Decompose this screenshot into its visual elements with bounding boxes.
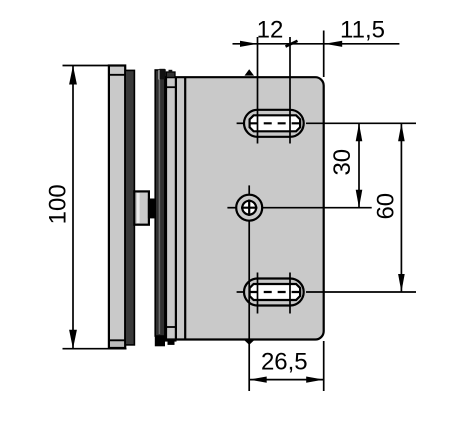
svg-text:30: 30	[329, 149, 356, 176]
bottom slot outer obround	[244, 279, 304, 306]
lamp body (side view)	[109, 66, 125, 348]
center hole inner circle	[242, 201, 256, 215]
dim 11,5 arrow	[325, 41, 343, 47]
strip top cap	[159, 69, 165, 80]
center hole top tick	[248, 185, 250, 194]
extension line plate right edge top	[323, 31, 325, 78]
svg-text:12: 12	[257, 17, 284, 44]
bracket plate (front view, with side bands)	[166, 77, 324, 339]
top slot left tick	[237, 122, 244, 124]
dim 100 down arrow	[69, 330, 77, 349]
dim 100 up arrow	[69, 66, 77, 85]
top slot right extension line	[306, 122, 416, 124]
band C bottom tab line	[166, 326, 176, 328]
svg-text:11,5: 11,5	[340, 17, 385, 44]
dim 100 line	[72, 66, 74, 349]
svg-text:60: 60	[373, 193, 400, 220]
strip gap slit	[158, 70, 160, 80]
dim 60 line	[400, 123, 402, 292]
band C right line	[175, 77, 177, 339]
top slot inner octagon	[250, 115, 301, 131]
center hole left tick	[227, 207, 236, 209]
band C top tab line	[166, 86, 176, 88]
lamp bottom cap shade	[110, 340, 124, 347]
bottom slot left vertical tick	[257, 273, 259, 314]
dim 30 line	[358, 123, 360, 207]
bottom slot right vertical tick	[289, 273, 291, 314]
dim 26,5 left arrow	[249, 377, 267, 383]
top dimension line	[233, 43, 400, 45]
dim 60 down arrow	[398, 274, 405, 292]
stud nut	[148, 199, 158, 219]
bottom slot left tick	[237, 291, 244, 293]
extension line slot left center	[257, 37, 259, 144]
dim 100 top extension line	[63, 65, 126, 67]
mounting stud block	[134, 191, 149, 224]
strip bottom cap	[155, 336, 165, 346]
center hole cross horizontal	[241, 207, 257, 209]
dim 100 bottom extension line	[63, 348, 127, 350]
strip seam	[158, 72, 160, 334]
top slot outer obround	[244, 110, 304, 137]
center hole bottom extension line	[248, 221, 250, 391]
dim slash tick	[286, 41, 298, 47]
stud highlight	[137, 193, 140, 223]
plate left edge line	[184, 77, 186, 339]
band C bottom foot	[168, 340, 175, 345]
bottom slot dashed centerline	[250, 291, 300, 293]
band C bottom foot bar	[165, 340, 177, 342]
centerline down arrow	[244, 340, 255, 345]
bracket dark strips (side view)	[155, 70, 165, 336]
dim 26,5 line	[249, 379, 324, 381]
dim 30 up arrow	[356, 123, 363, 141]
top slot dashed centerline	[250, 122, 300, 124]
svg-text:26,5: 26,5	[261, 349, 308, 376]
band C top tab	[169, 70, 173, 73]
extension line slot right center	[289, 37, 291, 144]
dim 60 up arrow	[398, 123, 405, 141]
dim 26,5 right arrow	[306, 377, 324, 383]
bottom slot inner octagon	[250, 284, 301, 300]
dim 30 down arrow	[356, 190, 363, 208]
svg-text:100: 100	[44, 184, 71, 224]
lamp bottom cap line	[109, 339, 125, 341]
lamp top cap line	[109, 74, 125, 76]
center hole cross vertical	[248, 200, 250, 216]
center hole right extension line	[262, 207, 371, 209]
lamp gasket strip	[125, 70, 134, 345]
center hole outer circle	[236, 195, 262, 221]
dim 12 left arrow	[240, 41, 258, 47]
bottom slot right extension line	[306, 291, 416, 293]
centerline up arrow	[245, 69, 255, 75]
extension line plate right edge bottom	[323, 341, 325, 391]
band C top bump	[166, 72, 175, 77]
